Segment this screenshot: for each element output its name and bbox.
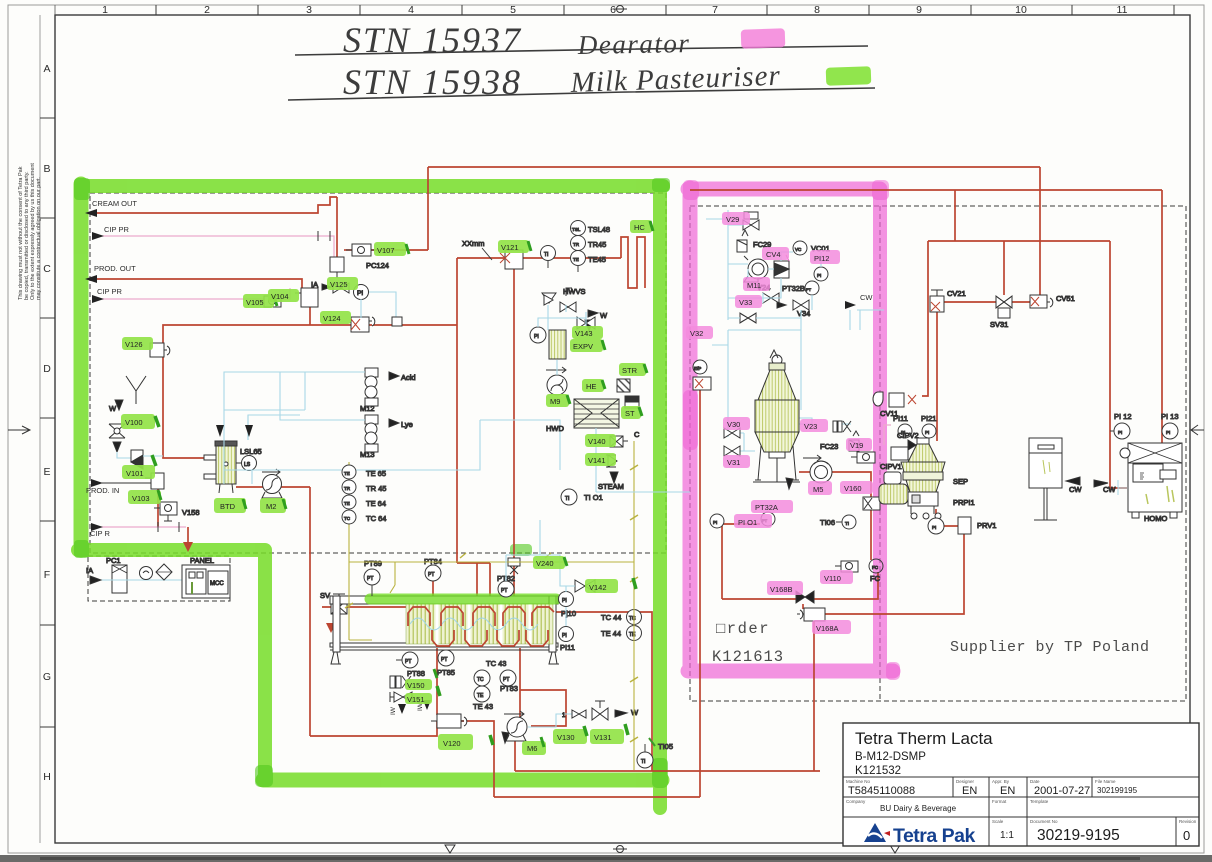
svg-text:PC1: PC1: [106, 556, 121, 565]
instrument TI05: [637, 738, 673, 768]
label HE: [582, 379, 605, 392]
instrument TE64: [342, 495, 386, 509]
svg-text:V140: V140: [588, 437, 606, 446]
svg-text:Document No: Document No: [1030, 819, 1058, 824]
wire homo feed right: [1161, 190, 1163, 450]
svg-text:CV21: CV21: [947, 289, 966, 298]
wire CIP R drop arrow: [187, 527, 189, 543]
instrument PT82: [497, 574, 515, 597]
svg-text:V34: V34: [797, 309, 810, 318]
label M11: [743, 277, 770, 291]
svg-text:C: C: [43, 263, 51, 275]
svg-text:PRV1: PRV1: [977, 521, 996, 530]
svg-text:PT32A: PT32A: [755, 503, 778, 512]
svg-text:EN: EN: [962, 785, 977, 797]
wire main left drop: [309, 487, 311, 736]
svg-text:V158: V158: [182, 508, 200, 517]
heat-exchanger PHE frame: [330, 596, 559, 664]
svg-text:V31: V31: [727, 458, 740, 467]
wire SV to PHE inlet: [322, 606, 413, 608]
svg-text:TE 65: TE 65: [366, 469, 386, 478]
wire V168B drop: [802, 604, 804, 609]
valve V125: [330, 257, 344, 278]
wire V107 to riser: [371, 249, 428, 251]
wire V168A to PRV riser: [825, 533, 964, 614]
valve CIPV1: [880, 425, 908, 471]
wire V121 drop b: [513, 269, 515, 596]
svg-text:PT83: PT83: [500, 684, 518, 693]
svg-text:TE: TE: [344, 501, 350, 506]
valve CIPV2: [897, 431, 924, 450]
svg-text:K121532: K121532: [855, 765, 901, 777]
GREEN-CHIPS: [121, 220, 653, 755]
valve V158: [154, 502, 200, 521]
label V240: [533, 556, 567, 569]
svg-text:TE 64: TE 64: [366, 499, 386, 508]
valve V168B: [796, 591, 814, 603]
svg-text:V124: V124: [323, 314, 341, 323]
svg-text:CW: CW: [1103, 485, 1116, 494]
label V23: [800, 419, 828, 432]
svg-text:PT32B: PT32B: [782, 284, 805, 293]
wire dosing cyan: [224, 372, 560, 470]
svg-text:V125: V125: [330, 280, 348, 289]
wire V120 to bottom drop: [461, 721, 494, 797]
svg-text:1:1: 1:1: [1000, 830, 1014, 841]
label V101: [122, 455, 156, 479]
wire PT84 stub: [432, 581, 434, 596]
svg-text:PI: PI: [1118, 430, 1122, 435]
homogenizer HOMO: [1094, 443, 1182, 523]
wire SV31 feed: [1003, 241, 1005, 295]
controller FC29: [737, 230, 771, 252]
svg-text:V143: V143: [575, 329, 593, 338]
label PT32A: [751, 500, 793, 513]
svg-text:B-M12-DSMP: B-M12-DSMP: [855, 751, 926, 763]
svg-text:PT: PT: [367, 576, 373, 582]
label M2: [260, 498, 286, 513]
svg-text:PT88: PT88: [407, 669, 425, 678]
svg-text:STEAM: STEAM: [598, 482, 624, 491]
svg-text:V130: V130: [557, 733, 575, 742]
svg-text:IW: IW: [390, 706, 397, 715]
label V29: [722, 212, 750, 225]
label V142: [585, 578, 636, 593]
svg-text:Tetra Pak: Tetra Pak: [893, 825, 976, 847]
svg-text:E: E: [43, 466, 50, 478]
vessel EXPV: [549, 330, 566, 359]
svg-text:302199195: 302199195: [1097, 786, 1138, 795]
svg-text:Tetra Therm Lacta: Tetra Therm Lacta: [855, 729, 993, 748]
label V168A: [812, 620, 851, 634]
svg-text:CREAM OUT: CREAM OUT: [92, 199, 137, 208]
wire sep cip column: [922, 241, 928, 396]
valve HWVS group: [542, 287, 608, 331]
svg-text:V131: V131: [594, 733, 612, 742]
wire V121 drop a: [456, 258, 458, 563]
svg-text:M11: M11: [747, 281, 761, 290]
node PROD OUT arrow: [85, 264, 136, 283]
filter STR: [617, 379, 630, 392]
pink highlighter order area border: [688, 188, 893, 671]
label V125: [327, 277, 358, 290]
svg-text:TI05: TI05: [658, 742, 673, 751]
wire cyan hwvs: [538, 305, 586, 330]
instrument TR45: [342, 480, 386, 494]
valve V104: [295, 288, 318, 307]
svg-text:TR: TR: [344, 486, 351, 491]
svg-text:HC: HC: [634, 223, 645, 232]
svg-text:SV: SV: [320, 591, 330, 600]
instrument TSL48: [571, 221, 611, 236]
label M5: [808, 481, 832, 495]
node PROD IN: [86, 479, 151, 495]
wire V126 down to BTD: [163, 357, 205, 458]
valve V126: [150, 343, 170, 357]
wire second header: [690, 189, 1162, 191]
instrument PI10: [559, 592, 577, 619]
svg-text:F: F: [44, 569, 50, 581]
wire deaerator to M5: [799, 471, 810, 473]
svg-text:TR45: TR45: [588, 240, 606, 249]
valve V150: [390, 676, 411, 688]
green highlighter left border bar: [78, 184, 663, 808]
node CREAM OUT arrow: [85, 199, 137, 217]
svg-text:T5845110088: T5845110088: [848, 785, 915, 797]
svg-text:Pj10: Pj10: [561, 609, 576, 618]
wire V125 to V107: [344, 249, 352, 251]
svg-text:may constitute a contractual o: may constitute a contractual obligation …: [36, 176, 42, 300]
cabinet CW unit: [1029, 438, 1082, 520]
svg-text:TC 43: TC 43: [486, 659, 506, 668]
svg-text:4: 4: [408, 4, 414, 16]
label V120: [438, 734, 493, 750]
wire pink column drop: [699, 390, 701, 797]
titleblock frame: [843, 723, 1199, 846]
wire CV51 riser: [1039, 167, 1041, 296]
svg-text:TSL48: TSL48: [588, 225, 610, 234]
svg-text:TC 44: TC 44: [601, 613, 621, 622]
row tick marks: [40, 118, 55, 727]
svg-text:PROD. IN: PROD. IN: [86, 486, 119, 495]
dashed border supplier area: [690, 206, 1186, 701]
handwritten line 1: STN 15937 Dearator: [295, 20, 868, 60]
valve V124: [351, 317, 375, 332]
svg-text:ST: ST: [625, 409, 635, 418]
node CW arrow mid: [845, 293, 873, 309]
wire M6 loop: [520, 690, 566, 726]
svg-text:7: 7: [712, 4, 718, 16]
svg-text:PI: PI: [357, 290, 363, 297]
label V160: [840, 481, 873, 494]
valve V160: [863, 497, 880, 510]
valve V100 cross: [109, 400, 131, 458]
svg-text:PI: PI: [925, 430, 929, 435]
valve V34: [777, 300, 810, 318]
instrument PT88: [396, 652, 425, 678]
svg-text:11: 11: [1117, 4, 1128, 16]
svg-text:PT85: PT85: [437, 668, 455, 677]
vessel deaerator: [753, 350, 800, 482]
valve V151: [390, 692, 412, 702]
valve CV21: [930, 289, 966, 312]
svg-text:V240: V240: [536, 559, 554, 568]
olive steam line: [630, 441, 638, 770]
label HC: [630, 220, 653, 233]
svg-text:M12: M12: [360, 404, 375, 413]
svg-text:V105: V105: [246, 298, 264, 307]
svg-text:CIPV2: CIPV2: [897, 431, 919, 440]
wire V110 drop: [810, 572, 878, 599]
svg-text:V120: V120: [443, 739, 461, 748]
panel PC1 group: [86, 556, 182, 593]
valve V141: [598, 455, 624, 491]
svg-text:TI: TI: [641, 759, 645, 765]
label PI01: [734, 514, 772, 528]
label BTD: [214, 498, 246, 513]
valve V101: [131, 450, 143, 469]
svg-text:FC: FC: [870, 574, 881, 583]
valve V33: [740, 313, 756, 323]
heat-exchanger PHE plates: [406, 604, 553, 644]
label CV4: [762, 247, 789, 260]
label V105: [243, 294, 277, 308]
svg-text:TE: TE: [573, 257, 579, 262]
svg-text:TC: TC: [477, 677, 484, 683]
svg-text:BU Dairy & Beverage: BU Dairy & Beverage: [880, 804, 957, 813]
wire bottom right run: [515, 770, 820, 772]
label V143: [572, 326, 603, 339]
svg-text:6: 6: [610, 4, 616, 16]
dosing pump M12: [360, 368, 416, 413]
label V151: [405, 686, 440, 704]
valve V107: [346, 244, 377, 256]
label V121g: [498, 240, 531, 253]
svg-text:V142: V142: [589, 583, 607, 592]
svg-text:PROD. OUT: PROD. OUT: [94, 264, 136, 273]
wire CV21-SV31-CV51 rail: [944, 301, 1030, 303]
wire main top header: [428, 166, 1040, 168]
svg-text:LSL65: LSL65: [240, 447, 262, 456]
controller PC124 group: [311, 261, 402, 326]
node IW arrow: [390, 704, 406, 715]
wire bottom run to V120: [310, 721, 437, 736]
svg-text:CV51: CV51: [1056, 294, 1075, 303]
svg-text:IA: IA: [311, 280, 318, 289]
valve V142: [571, 580, 595, 592]
svg-text:CW: CW: [860, 293, 873, 302]
svg-text:Machine No: Machine No: [846, 779, 871, 784]
PINK-CHIPS: [686, 212, 873, 634]
svg-text:TC 64: TC 64: [366, 514, 386, 523]
svg-text:PT: PT: [428, 572, 434, 578]
svg-text:PRPI1: PRPI1: [953, 498, 975, 507]
svg-text:SV31: SV31: [990, 320, 1008, 329]
green highlighter corner blobs: [74, 178, 670, 788]
svg-text:SEP: SEP: [953, 477, 968, 486]
instrument PT89: [364, 559, 382, 596]
svg-text:2001-07-27: 2001-07-27: [1034, 785, 1090, 797]
svg-text:V168A: V168A: [816, 624, 839, 633]
instrument PI12b: [814, 267, 828, 281]
instrument PT84: [424, 557, 442, 581]
valve V140: [610, 436, 628, 447]
svg-text:LS: LS: [244, 462, 251, 468]
valve V168A: [797, 608, 825, 621]
wire prod out: [97, 279, 302, 288]
svg-text:CIP PR: CIP PR: [104, 225, 129, 234]
svg-text:TR 45: TR 45: [366, 484, 386, 493]
wire header branch drop: [954, 190, 956, 241]
centering mark right: [1190, 425, 1204, 435]
wire cyan phe area: [506, 520, 575, 626]
svg-text:V101: V101: [126, 469, 144, 478]
pump M2: [262, 469, 282, 498]
svg-text:V126: V126: [125, 340, 143, 349]
svg-text:Date: Date: [1030, 779, 1040, 784]
wire CIP R: [90, 522, 186, 538]
label V107: [374, 242, 409, 256]
svg-text:PT: PT: [441, 657, 447, 663]
handwritten line 2: STN 15938 Milk Pasteuriser: [288, 60, 875, 102]
instrument TC64: [342, 510, 386, 524]
svg-text:M6: M6: [527, 744, 537, 753]
svg-text:TC: TC: [344, 516, 351, 521]
svg-text:PT: PT: [501, 588, 507, 594]
label V168B: [767, 581, 803, 595]
RED-PIPES: [97, 167, 1162, 797]
wire V104 lower rail: [310, 307, 457, 325]
valve CV51: [1030, 294, 1075, 308]
green highlighter over PHE top: [370, 594, 556, 605]
centering mark left: [8, 426, 30, 434]
svg-text:HWD: HWD: [546, 424, 564, 433]
svg-text:V151: V151: [407, 695, 425, 704]
pump M11: [744, 256, 768, 282]
wire M6 feed: [519, 648, 521, 717]
label V31: [723, 455, 750, 468]
svg-text:PI11: PI11: [560, 643, 575, 652]
instrument PI13 homo: [1161, 412, 1179, 439]
svg-text:CV4: CV4: [766, 250, 781, 259]
row letters left: [43, 63, 51, 783]
label ST: [621, 406, 642, 419]
node IWR arrow: [417, 698, 431, 711]
label V141: [585, 453, 616, 466]
svg-text:TI06: TI06: [820, 518, 835, 527]
strainer Y: [126, 376, 146, 404]
svg-text:FC: FC: [872, 565, 879, 570]
instrument TE45: [571, 251, 606, 273]
titleblock row2 labels: [846, 779, 1197, 824]
svg-text:W: W: [600, 311, 608, 320]
instrument VC01: [793, 241, 830, 255]
instrument PI expv: [530, 327, 546, 343]
valve V131: [592, 701, 639, 720]
wire V121 rail: [457, 257, 621, 259]
svg-text:3: 3: [306, 4, 312, 16]
label EXPV: [570, 339, 605, 352]
fan M9: [546, 367, 567, 395]
svg-text:M5: M5: [813, 485, 823, 494]
ruler ticks top: [156, 5, 1174, 15]
wire PHE outlet right: [554, 612, 652, 771]
label V130: [553, 726, 587, 744]
controller FC23: [820, 431, 859, 451]
wire cip pr lower: [92, 287, 290, 304]
wire V160 down: [870, 508, 872, 560]
svg-text:V33: V33: [739, 298, 752, 307]
instrument TC44: [601, 610, 642, 625]
svg-text:CW: CW: [1069, 485, 1082, 494]
svg-text:2: 2: [204, 4, 210, 16]
valve V29: [743, 212, 759, 230]
svg-text:PI: PI: [534, 334, 539, 340]
green highlight swatch line 2: [826, 66, 872, 86]
valve V30: [724, 428, 740, 438]
sidebar disclaimer text: [18, 163, 42, 300]
svg-text:G: G: [43, 671, 51, 683]
svg-text:PI21: PI21: [921, 414, 936, 423]
label V30: [723, 417, 750, 430]
wire riser top left: [427, 167, 429, 250]
svg-text:PT: PT: [806, 287, 812, 292]
pump M6: [502, 711, 527, 743]
separator SEP: [879, 438, 975, 519]
svg-text:PI: PI: [932, 525, 936, 530]
svg-text:PI O1: PI O1: [738, 518, 757, 527]
wire cip pr top: [92, 225, 334, 257]
svg-text:V150: V150: [407, 681, 425, 690]
svg-text:V19: V19: [850, 441, 863, 450]
svg-text:V107: V107: [377, 246, 395, 255]
svg-text:HOMO: HOMO: [1144, 514, 1167, 523]
svg-text:EXPV: EXPV: [573, 342, 593, 351]
instrument TI45: [541, 246, 556, 269]
wire M2 to main drop: [281, 486, 310, 488]
panel MCC box: [182, 556, 230, 598]
valve V110: [835, 559, 883, 583]
transducer EP V32: [693, 360, 711, 390]
svg-text:B: B: [43, 163, 50, 175]
svg-text:IA: IA: [86, 566, 93, 575]
wire M5 suction: [722, 598, 796, 600]
svg-text:□rder: □rder: [716, 620, 770, 638]
wire SV drain arrow: [326, 614, 336, 633]
svg-text:HE: HE: [586, 382, 596, 391]
svg-text:TI O1: TI O1: [584, 493, 603, 502]
pump M5: [786, 455, 832, 489]
svg-text:PI: PI: [562, 598, 567, 604]
valve V143: [577, 317, 595, 329]
svg-text:Designer: Designer: [956, 779, 975, 784]
wire deaerator drain: [722, 524, 760, 599]
svg-text:A: A: [43, 63, 50, 75]
svg-text:PI11: PI11: [893, 414, 908, 423]
label M9: [546, 394, 570, 407]
label V124: [320, 311, 351, 324]
svg-text:TI: TI: [565, 496, 569, 502]
svg-text:PI12: PI12: [814, 254, 829, 263]
svg-text:PI: PI: [1166, 430, 1170, 435]
svg-text:TE 44: TE 44: [601, 629, 621, 638]
wire PHE serpentine top overlay: [408, 607, 554, 646]
instrument PT85: [437, 650, 455, 677]
svg-text:PT: PT: [405, 659, 411, 665]
svg-text:CIP R: CIP R: [90, 529, 110, 538]
pink highlighter blob deaerator: [763, 398, 790, 440]
valve V19: [851, 452, 875, 463]
